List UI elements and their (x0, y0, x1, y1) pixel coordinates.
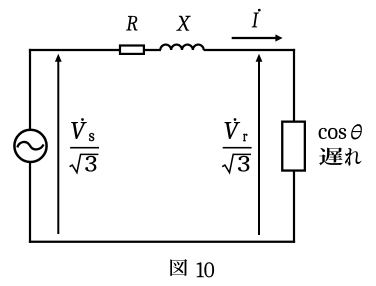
voltage arrow Vs (left, upward) (57, 61, 59, 235)
wire: left vertical lower segment (29, 162, 31, 243)
radical sqrt (left) (70, 154, 99, 172)
inductor X (4 humps) (160, 45, 203, 50)
wire: inductor to top-right corner (204, 49, 296, 51)
label X (176, 16, 191, 31)
wire: right vertical lower segment (293, 171, 295, 243)
label 遅 (lagging) (319, 148, 343, 166)
ac source (circle) (14, 130, 46, 162)
current arrow I (horizontal, rightward) (232, 37, 278, 39)
fraction bar (left) (70, 147, 99, 149)
subscript r (243, 134, 247, 141)
digit 3 (right denominator) (238, 156, 250, 172)
subscript s (89, 133, 94, 141)
resistor R (series box) (120, 46, 144, 54)
voltage arrow Vr (right, upward) (258, 61, 260, 236)
radical sqrt (right) (222, 154, 251, 172)
label Vr numerator V (224, 122, 240, 139)
caption 図 (170, 259, 187, 276)
label R (126, 16, 138, 31)
wire: top-left horizontal segment (29, 49, 120, 51)
label cos (319, 128, 347, 139)
wire: right vertical upper segment (293, 49, 295, 121)
wire: left vertical upper segment (29, 49, 31, 131)
ac source sine wave (17, 142, 43, 150)
label theta (351, 124, 362, 139)
label I-dot (252, 13, 259, 28)
dot over Vs (81, 118, 84, 121)
caption 10 (197, 262, 215, 277)
load impedance box (cos theta lagging) (282, 122, 305, 171)
dot over Vr (234, 118, 237, 121)
label れ (345, 148, 362, 166)
label Vs numerator V (71, 122, 87, 139)
fraction bar (right) (223, 147, 252, 149)
wire: bottom horizontal (29, 241, 295, 243)
digit 3 (left denominator) (85, 156, 96, 172)
wire: between resistor and inductor (144, 49, 161, 51)
